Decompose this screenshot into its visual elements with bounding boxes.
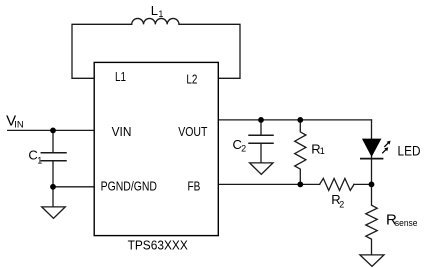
svg-text:TPS63XXX: TPS63XXX xyxy=(128,238,188,253)
label Rsense xyxy=(386,212,418,229)
resistor Rsense xyxy=(366,184,377,255)
wire FB to R2 xyxy=(218,183,319,185)
wire VIN input xyxy=(8,129,95,131)
op-amp/converter IC U1 TPS63XXX box xyxy=(94,62,218,235)
node junction dot VOUT/C2 xyxy=(258,117,264,123)
wire C1 bottom branch xyxy=(52,161,54,187)
ground under Rsense xyxy=(360,255,384,267)
svg-text:L2: L2 xyxy=(186,71,197,86)
node junction dot VOUT/R1 xyxy=(297,117,303,123)
wire C2 bottom branch xyxy=(260,143,262,163)
svg-text:2: 2 xyxy=(241,144,246,154)
svg-text:L1: L1 xyxy=(115,69,126,84)
resistor R2 xyxy=(320,178,354,190)
diode LED D1 triangle xyxy=(362,139,382,157)
svg-text:1: 1 xyxy=(37,156,42,166)
LED emission arrow 1 xyxy=(384,141,390,147)
wire C2 top branch xyxy=(260,120,262,135)
node junction dot FB/Rsense xyxy=(369,182,375,188)
wire top loop right (inductor to L2 pin) xyxy=(179,24,240,78)
label C2 xyxy=(233,137,247,154)
inductor L1 xyxy=(132,18,179,24)
svg-text:LED: LED xyxy=(398,143,421,158)
wire VOUT to LED branch xyxy=(218,119,371,121)
svg-text:1: 1 xyxy=(158,9,163,19)
label L1 (inductor value) xyxy=(151,3,164,19)
svg-text:2: 2 xyxy=(339,200,344,210)
capacitor C2 xyxy=(249,135,273,143)
node junction dot VIN/C1 xyxy=(50,127,56,133)
wire to ground under C1 xyxy=(52,187,54,207)
label C1 xyxy=(28,148,42,166)
svg-text:FB: FB xyxy=(188,178,201,193)
svg-text:1: 1 xyxy=(320,146,325,156)
wire PGND/GND pin xyxy=(53,186,94,188)
node junction dot FB/R1 xyxy=(297,182,303,188)
diode LED D1 cathode bar xyxy=(360,158,383,160)
svg-text:VOUT: VOUT xyxy=(178,124,207,139)
label R1 xyxy=(311,142,325,157)
wire LED branch vertical xyxy=(371,120,373,184)
resistor R1 xyxy=(295,120,306,184)
wire R2 to Rsense node xyxy=(354,183,372,185)
wire C1 top branch xyxy=(52,130,54,152)
label VIN (input net) xyxy=(6,113,24,131)
svg-text:sense: sense xyxy=(395,218,418,228)
ground under C1 xyxy=(42,207,66,219)
svg-text:L: L xyxy=(151,3,158,18)
label R2 xyxy=(331,192,344,210)
capacitor C1 xyxy=(41,153,66,161)
ground under C2 xyxy=(250,163,273,174)
svg-text:PGND/GND: PGND/GND xyxy=(101,178,157,193)
LED emission arrow 2 xyxy=(382,147,388,153)
svg-text:IN: IN xyxy=(14,120,24,131)
wire top loop left (L1 pin to inductor) xyxy=(72,24,132,78)
node junction dot C1/PGND xyxy=(50,184,56,190)
svg-text:VIN: VIN xyxy=(112,124,132,139)
